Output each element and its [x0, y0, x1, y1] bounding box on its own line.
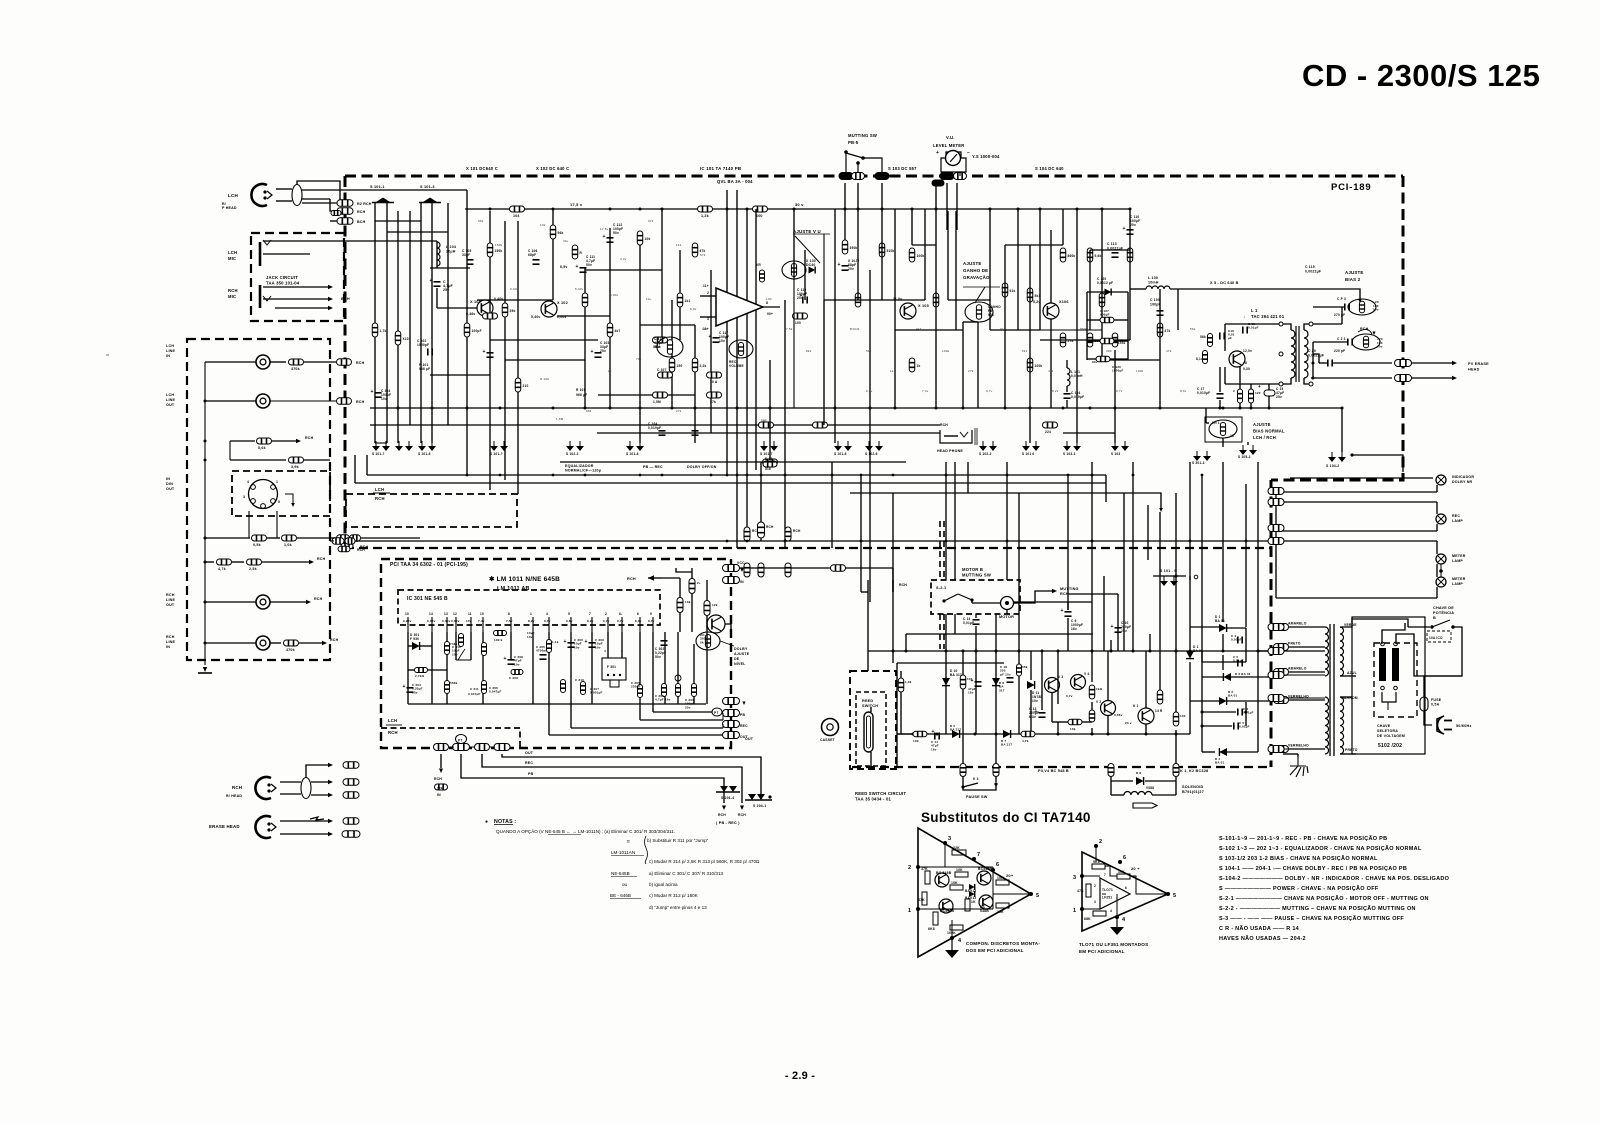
- svg-text:0,019μF: 0,019μF: [1071, 395, 1084, 399]
- wire: [1177, 289, 1179, 330]
- motor M: [1001, 597, 1014, 610]
- svg-text:50v: 50v: [613, 231, 619, 235]
- wire: [769, 360, 771, 460]
- wire rail 602: [1013, 601, 1092, 603]
- wire: [436, 241, 438, 268]
- potentiometer: [675, 675, 681, 681]
- svg-text:0,5A: 0,5A: [1431, 703, 1440, 707]
- svg-text:100: 100: [795, 321, 801, 325]
- svg-text:12: 12: [453, 612, 457, 616]
- wire: [989, 209, 991, 330]
- svg-text:AJUSTE: AJUSTE: [1345, 270, 1364, 275]
- pin 2 IC301: [607, 617, 609, 632]
- resistor 5K6: [1092, 864, 1105, 869]
- svg-text:RCH: RCH: [375, 496, 385, 501]
- svg-text:+: +: [1123, 226, 1126, 232]
- wire: [795, 236, 820, 263]
- svg-text:120: 120: [702, 327, 708, 331]
- svg-text:27k: 27k: [710, 400, 716, 404]
- svg-text:MIC: MIC: [228, 294, 236, 299]
- wire: [275, 307, 328, 309]
- svg-text:S 102-2: S 102-2: [979, 452, 992, 456]
- svg-text:57k: 57k: [700, 253, 706, 257]
- svg-text:+: +: [576, 264, 579, 270]
- svg-text:R/ HEAD: R/ HEAD: [226, 794, 242, 798]
- svg-text:10v: 10v: [595, 645, 601, 649]
- wire: [1145, 780, 1176, 782]
- fuse: [1420, 697, 1428, 711]
- node junctions: [466, 474, 469, 477]
- svg-text:S-2-2 - ——————— MUTTING – CHAV: S-2-2 - ——————— MUTTING – CHAVE NA POSIÇ…: [1219, 905, 1416, 912]
- chave seletora inner dashed: [1374, 643, 1417, 717]
- resistor 5,6k: [257, 438, 272, 444]
- svg-text:5K6: 5K6: [1093, 860, 1100, 864]
- jack circuit board border: [251, 233, 344, 321]
- svg-text:0,93v: 0,93v: [403, 619, 412, 623]
- wire: [1159, 289, 1161, 408]
- wire: [330, 537, 336, 539]
- wire: [1076, 209, 1078, 443]
- capacitor C5b: [1234, 723, 1238, 730]
- wire: [844, 183, 846, 240]
- resistor 47K: [922, 892, 927, 905]
- svg-text:BA 317: BA 317: [1001, 743, 1012, 747]
- svg-text:5,6k: 5,6k: [258, 446, 266, 450]
- op-amp TL071 inner triangle: [1100, 878, 1130, 909]
- svg-text:8,0v: 8,0v: [1180, 389, 1187, 393]
- op-amp substitute triangle 1: [918, 828, 1031, 957]
- svg-text:+: +: [1111, 624, 1114, 630]
- wire: [205, 537, 250, 539]
- capacitor C5 0.01uF: [1238, 660, 1242, 667]
- wire: [679, 250, 681, 340]
- svg-text:V.U.: V.U.: [946, 135, 955, 140]
- wire: [205, 601, 256, 603]
- wire: [1005, 244, 1063, 246]
- svg-text:0,00v: 0,00v: [610, 293, 619, 297]
- wire: [1239, 403, 1241, 408]
- wire: [366, 455, 368, 475]
- wire: [270, 361, 286, 363]
- svg-text:5,40v: 5,40v: [531, 315, 541, 319]
- RCH mic jack: [259, 285, 262, 308]
- resistor 10K: [1117, 874, 1130, 879]
- connector pin: [1268, 746, 1284, 753]
- wire: [1222, 634, 1224, 651]
- capacitor C304 0.33uF: [407, 688, 414, 692]
- svg-text:6,5v: 6,5v: [560, 265, 567, 269]
- svg-text:REED: REED: [862, 699, 873, 703]
- svg-text:0,8v: 0,8v: [566, 619, 573, 623]
- resistor: [879, 243, 885, 257]
- svg-text:C P 3: C P 3: [1337, 297, 1346, 301]
- transformer T2 core: [1329, 624, 1331, 756]
- wire: [1313, 323, 1342, 325]
- svg-text:90k: 90k: [988, 313, 994, 317]
- transistor X106: [1043, 303, 1059, 319]
- svg-text:R2 RCH: R2 RCH: [357, 202, 372, 206]
- svg-text:6: 6: [996, 862, 999, 868]
- wire rail 663: [897, 662, 1004, 664]
- svg-text:0,30: 0,30: [1243, 367, 1250, 371]
- wire: [375, 442, 387, 444]
- svg-text:20 +: 20 +: [1131, 866, 1140, 871]
- wire: [1436, 541, 1438, 554]
- svg-text:516: 516: [765, 467, 771, 471]
- svg-text:10: 10: [405, 612, 409, 616]
- wire: [1340, 675, 1356, 677]
- svg-text:BCH: BCH: [341, 297, 350, 301]
- capacitor C103 33uF: [595, 353, 602, 357]
- svg-text:RCH: RCH: [940, 423, 948, 427]
- voltage selector link: [1382, 692, 1396, 702]
- wire: [963, 321, 978, 323]
- svg-text:100: 100: [913, 739, 919, 743]
- wire: [784, 543, 786, 548]
- notes brace: [645, 836, 648, 864]
- wire: [1114, 350, 1116, 443]
- svg-text:10K: 10K: [997, 876, 1004, 880]
- wire: [430, 267, 470, 269]
- ground S 102-2: [979, 441, 997, 451]
- wire: [1153, 575, 1186, 577]
- svg-text:PRETO: PRETO: [1288, 642, 1301, 646]
- wire: [972, 602, 1000, 604]
- wire: [860, 475, 862, 548]
- wire: [653, 711, 712, 713]
- wire: [1130, 876, 1168, 894]
- resistor 68K: [1093, 911, 1106, 916]
- svg-text:2: 2: [1094, 884, 1096, 888]
- wire: [1283, 378, 1291, 384]
- svg-text:100k: 100k: [1136, 369, 1144, 373]
- svg-text:150k: 150k: [495, 249, 503, 253]
- svg-text:+: +: [483, 349, 486, 355]
- svg-text:DE: DE: [734, 657, 740, 661]
- resistor 1k: [1089, 685, 1095, 699]
- svg-text:220μF: 220μF: [631, 685, 641, 689]
- svg-text:C 100: C 100: [1150, 298, 1160, 302]
- pin 8 IC301: [510, 617, 512, 632]
- capacitor C303 10uF: [589, 643, 596, 647]
- svg-text:150: 150: [677, 364, 683, 368]
- wire: [428, 669, 447, 671]
- wire: [330, 220, 337, 222]
- wire: [662, 577, 680, 579]
- wire rail 634: [906, 633, 1093, 635]
- svg-text:47K: 47K: [921, 867, 928, 871]
- svg-text:L 100: L 100: [1148, 276, 1158, 280]
- svg-text:PT: PT: [458, 739, 462, 743]
- svg-text:966 μF: 966 μF: [419, 367, 430, 371]
- svg-text:91k: 91k: [1000, 327, 1006, 331]
- svg-text:LCH: LCH: [388, 718, 397, 723]
- svg-text:BIAS NORMAL: BIAS NORMAL: [1253, 429, 1285, 434]
- resistor: [813, 422, 828, 428]
- wire: [297, 181, 340, 203]
- svg-text:4,7μF 16v: 4,7μF 16v: [655, 698, 671, 702]
- wire: [570, 704, 572, 728]
- svg-text:2+: 2+: [697, 581, 701, 585]
- svg-text:REC: REC: [740, 724, 748, 728]
- svg-text:6K8: 6K8: [928, 927, 935, 931]
- notes underline: [611, 855, 644, 857]
- pin 5 IC301: [570, 617, 572, 632]
- wire: [1250, 384, 1252, 389]
- svg-text:X 105: X 105: [918, 304, 929, 308]
- wire: [1090, 249, 1130, 251]
- svg-text:220 pF: 220 pF: [1334, 349, 1345, 353]
- transformer T2 secondary left upper: [1325, 627, 1329, 676]
- wire: [1189, 627, 1191, 651]
- diode: [1105, 289, 1112, 296]
- wire: [691, 568, 693, 579]
- trimmer C110: [657, 337, 683, 357]
- connector pin IN: [723, 577, 740, 584]
- svg-text:NE-545B: NE-545B: [611, 871, 630, 876]
- wire: [967, 462, 969, 493]
- wire: [1006, 462, 1008, 580]
- svg-text:0,40v: 0,40v: [510, 287, 519, 291]
- wire: [945, 462, 947, 580]
- wire: [722, 713, 724, 720]
- resistor 1,5M: [653, 392, 668, 398]
- svg-text:3: 3: [1094, 900, 1096, 904]
- svg-text:NÍVEL: NÍVEL: [734, 661, 746, 666]
- wire: [959, 172, 961, 176]
- svg-text:EQUALIZADOR: EQUALIZADOR: [565, 464, 594, 468]
- svg-text:4: 4: [604, 649, 606, 653]
- svg-text:39k: 39k: [510, 309, 516, 313]
- transistor K1: [1138, 708, 1154, 724]
- wire: [229, 441, 231, 460]
- capacitor C10 47uF: [975, 682, 982, 686]
- ground S 101-?: [490, 441, 508, 451]
- svg-text:LINE: LINE: [166, 398, 176, 402]
- transistor X105: [900, 303, 916, 319]
- wire: [1205, 408, 1207, 423]
- svg-text:LM-1011AN: LM-1011AN: [611, 850, 635, 855]
- wire: [1224, 367, 1226, 384]
- resistor 2: [1238, 389, 1243, 403]
- wire: [1222, 616, 1224, 622]
- svg-text:AJUSTE V U: AJUSTE V U: [793, 229, 821, 234]
- svg-text:S 101 6: S 101 6: [1022, 452, 1034, 456]
- PCI-189 board border right: [1271, 176, 1403, 480]
- svg-text:0,03v: 0,03v: [427, 619, 436, 623]
- svg-text:μF 10v: μF 10v: [1000, 672, 1011, 676]
- svg-text:POTÊNCIA: POTÊNCIA: [1433, 610, 1454, 615]
- svg-text:1: 1: [276, 480, 278, 484]
- svg-text:S 104-2: S 104-2: [1326, 464, 1339, 468]
- resistor: [502, 303, 508, 317]
- svg-text:X101: X101: [403, 337, 411, 341]
- svg-text:PB — REC: PB — REC: [643, 465, 663, 469]
- wire: [1313, 306, 1344, 308]
- resistor 4,7k: [1021, 731, 1035, 737]
- svg-text:30+: 30+: [563, 239, 569, 243]
- svg-text:10v: 10v: [719, 339, 725, 343]
- capacitor C309: [511, 670, 523, 675]
- transformer T2 secondary left lower: [1325, 697, 1329, 754]
- svg-text:100: 100: [766, 297, 772, 301]
- svg-text:DIN: DIN: [166, 482, 173, 486]
- wire: [548, 632, 550, 704]
- svg-text:4700pF: 4700pF: [536, 649, 548, 653]
- transformer T2 primary upper: [1340, 627, 1344, 676]
- wire PCI-195 ground rail: [408, 703, 706, 705]
- wire: [517, 221, 519, 494]
- switch power: [1408, 620, 1450, 627]
- wire: [1201, 475, 1203, 651]
- svg-text:11+: 11+: [703, 284, 709, 288]
- svg-text:1k1: 1k1: [676, 243, 682, 247]
- wire: [1382, 623, 1405, 644]
- wire: [962, 651, 964, 767]
- svg-text:LINE: LINE: [166, 349, 176, 353]
- wire: [1247, 442, 1249, 445]
- wire: [679, 578, 681, 598]
- svg-text:2: 2: [605, 612, 607, 616]
- resistor: [482, 643, 487, 656]
- wire: [330, 540, 334, 542]
- wire: [867, 580, 869, 592]
- svg-text:16v: 16v: [968, 691, 974, 695]
- svg-text:7: 7: [1104, 873, 1106, 877]
- wire: [1041, 651, 1043, 710]
- connector pin: [1268, 624, 1284, 631]
- wire: [700, 316, 716, 318]
- wire bus: [355, 482, 1106, 484]
- wire: [1123, 493, 1125, 627]
- wire: [1110, 640, 1112, 651]
- svg-text:50v: 50v: [1373, 308, 1379, 312]
- wire: [722, 724, 724, 728]
- trimmer ganho gravacao: [965, 302, 993, 322]
- capacitor X10J2: [842, 266, 849, 270]
- DIN board border: [232, 471, 330, 516]
- wire: [740, 806, 744, 811]
- wire: [1283, 324, 1291, 330]
- connector pin: [1268, 672, 1284, 679]
- svg-text:5102 /202: 5102 /202: [1378, 743, 1402, 749]
- svg-text:MIC: MIC: [228, 256, 236, 261]
- diode D301: [412, 642, 420, 650]
- svg-text:LAMP: LAMP: [1452, 559, 1463, 563]
- svg-text:10mH: 10mH: [1148, 281, 1159, 285]
- erase head: [255, 816, 276, 838]
- connector pin: [1268, 538, 1284, 545]
- wire: [824, 299, 858, 301]
- wire: [726, 190, 728, 475]
- wire: [1018, 493, 1020, 651]
- wire: [679, 613, 681, 632]
- svg-text:C R - NÃO USADA —— R 14: C R - NÃO USADA —— R 14: [1219, 925, 1300, 932]
- svg-text:600: 600: [756, 214, 763, 218]
- wire: [470, 632, 472, 660]
- trimmer CP3: [1348, 299, 1376, 315]
- power supply board border bottom: [852, 766, 1271, 768]
- wire: [700, 295, 716, 297]
- svg-text:F 301: F 301: [607, 665, 616, 669]
- wire: [1107, 716, 1109, 734]
- svg-text:B791(01)27: B791(01)27: [1182, 790, 1204, 794]
- resistor: [1087, 333, 1093, 347]
- resistor 56k: [1208, 334, 1213, 347]
- wire: [918, 908, 993, 910]
- svg-text:R 100: R 100: [540, 377, 549, 381]
- svg-text:S 102-6: S 102-6: [865, 452, 878, 456]
- wire: [1212, 289, 1360, 300]
- wire: [1101, 209, 1103, 360]
- wire: [694, 325, 696, 443]
- svg-text:c) Mudar R 314 p/ 2,5K R 3: c) Mudar R 314 p/ 2,5K R 313 p/ 560K, R …: [649, 859, 760, 864]
- svg-text:S 201-4: S 201-4: [721, 796, 734, 800]
- resistor 10k: [677, 598, 683, 613]
- wire: [205, 361, 256, 363]
- wire: [1222, 655, 1224, 670]
- wire: [1175, 576, 1177, 651]
- resistor: [1027, 288, 1033, 302]
- wire: [297, 537, 330, 539]
- wire: [470, 746, 475, 748]
- wire: [1231, 676, 1258, 678]
- svg-text:860k: 860k: [1068, 254, 1076, 258]
- svg-text:4k7: 4k7: [916, 327, 922, 331]
- svg-text:BA 01: BA 01: [1228, 694, 1238, 698]
- svg-text:S 301-3: S 301-3: [1192, 461, 1205, 465]
- wire: [397, 211, 399, 443]
- diode D1 BA01: [1219, 624, 1227, 632]
- capacitor C106 68pF: [533, 260, 540, 264]
- svg-text:1,7k: 1,7k: [380, 329, 387, 333]
- wire: [971, 600, 973, 603]
- wire: [1020, 591, 1052, 603]
- wire: [1068, 593, 1118, 595]
- svg-text:S 101-6: S 101-6: [834, 452, 847, 456]
- svg-text:S 104 DC 640: S 104 DC 640: [1035, 166, 1064, 171]
- svg-text:RCH: RCH: [166, 593, 175, 597]
- ground pin4: [951, 938, 953, 950]
- pin 14 IC301: [431, 617, 433, 632]
- wire: [430, 374, 490, 376]
- wire: [1189, 462, 1191, 627]
- wire: [280, 781, 301, 783]
- wire: [230, 459, 286, 461]
- svg-text:6: 6: [637, 612, 639, 616]
- wire: [639, 704, 641, 720]
- svg-text:1k1: 1k1: [685, 299, 691, 303]
- wire: [1110, 781, 1112, 795]
- svg-text:RCH: RCH: [1060, 592, 1069, 596]
- svg-text:3: 3: [1073, 875, 1076, 881]
- resistor 470k: [289, 359, 304, 365]
- capacitor C104 0.019uF: [1064, 394, 1071, 398]
- svg-text:470k: 470k: [291, 367, 300, 371]
- node junctions 2: [726, 540, 729, 543]
- wire: [664, 632, 666, 704]
- wire: [1396, 634, 1462, 676]
- svg-text:4,3v: 4,3v: [620, 257, 627, 261]
- svg-text:51k: 51k: [866, 349, 872, 353]
- svg-text:LCH / RCH: LCH / RCH: [1253, 435, 1276, 440]
- resistor 47K: [925, 871, 930, 884]
- wire: [1424, 711, 1432, 725]
- resistor: [1157, 323, 1163, 337]
- wire: [1095, 846, 1097, 861]
- wire: [311, 781, 328, 783]
- svg-text:97k: 97k: [648, 219, 654, 223]
